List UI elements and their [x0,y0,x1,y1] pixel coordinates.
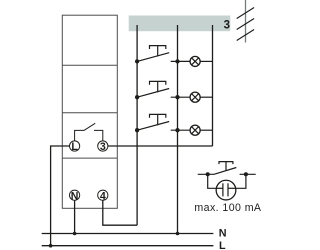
svg-text:L: L [219,240,226,250]
svg-text:3: 3 [100,141,106,153]
svg-text:4: 4 [100,191,106,203]
svg-text:max. 100 mA: max. 100 mA [194,202,262,214]
svg-text:N: N [219,228,227,240]
svg-text:N: N [71,191,79,203]
svg-text:3: 3 [224,19,230,31]
svg-text:L: L [71,141,78,153]
